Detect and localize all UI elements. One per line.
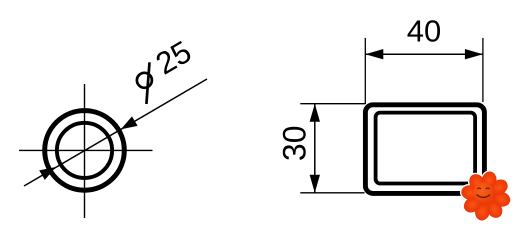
phi symbol bbox=[137, 62, 152, 104]
dim line 40 bbox=[365, 53, 483, 55]
outer tube bbox=[365, 105, 484, 194]
inner circle bbox=[57, 123, 112, 178]
inner tube bbox=[376, 113, 476, 184]
arrow lower-left bbox=[39, 167, 56, 180]
flower face features bbox=[477, 188, 490, 197]
flower face disc bbox=[473, 182, 494, 203]
arrows 30 dim bbox=[310, 104, 320, 122]
flower base disc bbox=[469, 180, 502, 213]
right figure: rectangular tube cross-section bbox=[300, 38, 484, 194]
leader line bbox=[24, 79, 207, 186]
left figure: pipe cross-section bbox=[19, 79, 207, 218]
ext lines 40 bbox=[364, 38, 366, 104]
arrow upper-right bbox=[121, 116, 138, 129]
ext lines 30 bbox=[300, 103, 365, 105]
centerline vertical bbox=[84, 84, 86, 218]
flower petals bbox=[460, 170, 512, 222]
svg-text:40: 40 bbox=[407, 14, 441, 49]
dim line 30 bbox=[314, 104, 316, 193]
centerline horizontal bbox=[19, 149, 153, 151]
svg-text:30: 30 bbox=[276, 126, 312, 162]
arrows 40 dim bbox=[365, 49, 383, 59]
flower white silhouette bbox=[458, 168, 513, 223]
outer circle bbox=[45, 111, 125, 191]
